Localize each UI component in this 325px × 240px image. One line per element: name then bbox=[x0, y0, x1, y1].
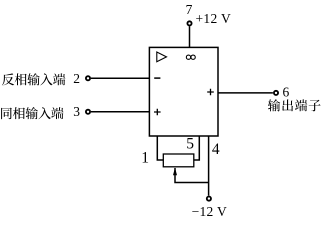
terminal circle pin 3 bbox=[86, 110, 90, 114]
terminal circle pin 7 bbox=[187, 21, 191, 25]
plus sign at non-inverting input bbox=[154, 109, 161, 116]
wire non-inverting input (pin 3) bbox=[91, 111, 149, 113]
wire output (pin 6) bbox=[218, 92, 273, 94]
op-amp triangle symbol bbox=[157, 52, 167, 62]
svg-text:2: 2 bbox=[73, 71, 80, 86]
svg-text:6: 6 bbox=[283, 84, 290, 99]
terminal circle pin 6 bbox=[274, 91, 278, 95]
infinity gain symbol bbox=[186, 55, 190, 59]
label 反相输入端 bbox=[2, 73, 66, 85]
label 同相输入端 bbox=[1, 107, 64, 119]
wire pin 4 down to -12V terminal bbox=[208, 136, 210, 196]
label 输出端子 bbox=[268, 99, 321, 111]
wire pin7 to box top bbox=[189, 26, 191, 47]
wiper arrowhead bbox=[173, 168, 177, 176]
plus sign at output inside box bbox=[207, 89, 214, 96]
svg-text:3: 3 bbox=[73, 104, 80, 119]
op-amp U1 body bbox=[149, 47, 218, 136]
wire pin 5 down and left to potentiometer bbox=[194, 136, 199, 160]
wiper wire down then right to pin4 net bbox=[175, 168, 209, 183]
wire pin 1 down and right to potentiometer bbox=[157, 136, 163, 160]
terminal circle pin 2 bbox=[86, 76, 90, 80]
svg-text:4: 4 bbox=[212, 141, 220, 158]
svg-text:1: 1 bbox=[141, 150, 149, 167]
potentiometer body bbox=[163, 154, 194, 167]
terminal circle -12V bbox=[207, 197, 211, 201]
svg-text:+12 V: +12 V bbox=[196, 11, 232, 26]
wire inverting input (pin 2) bbox=[91, 77, 149, 79]
svg-text:5: 5 bbox=[186, 136, 194, 153]
svg-text:−12 V: −12 V bbox=[192, 204, 228, 219]
svg-text:7: 7 bbox=[186, 2, 193, 17]
minus sign at inverting input bbox=[154, 77, 160, 79]
